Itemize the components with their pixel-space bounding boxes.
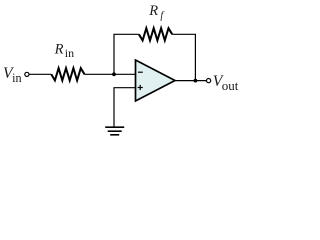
svg-text:out: out	[222, 78, 239, 93]
svg-text:f: f	[160, 11, 165, 22]
svg-text:R: R	[148, 3, 158, 19]
svg-text:in: in	[12, 71, 21, 85]
svg-text:R: R	[54, 41, 64, 57]
svg-text:in: in	[65, 46, 74, 60]
